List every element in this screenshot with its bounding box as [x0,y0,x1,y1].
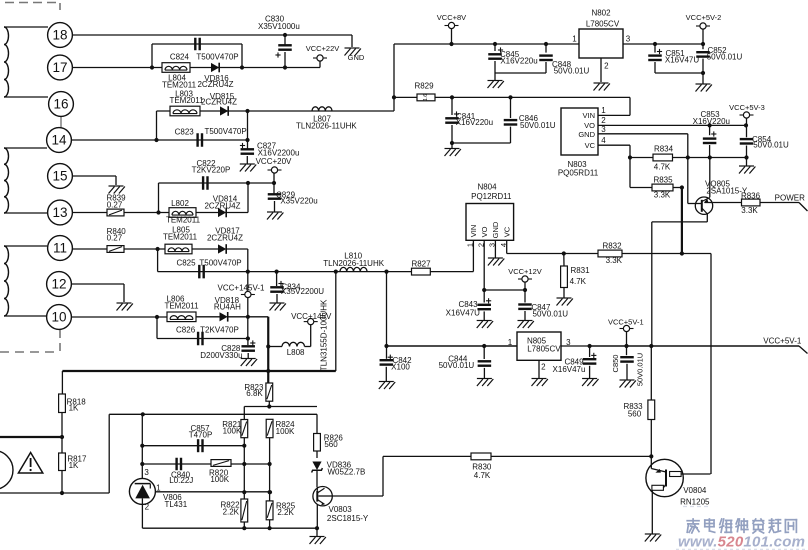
svg-text:4.7K: 4.7K [654,162,671,171]
svg-text:TEM2011: TEM2011 [166,216,201,225]
svg-text:14: 14 [51,133,67,148]
svg-text:VCC+12V: VCC+12V [508,267,542,276]
svg-text:1: 1 [601,106,606,115]
svg-text:4: 4 [601,136,606,145]
svg-text:GND: GND [348,53,365,62]
svg-text:1: 1 [572,34,577,43]
svg-text:560: 560 [324,440,338,449]
svg-text:3.3K: 3.3K [654,191,671,200]
svg-text:VIN: VIN [469,225,478,238]
svg-text:50V0.01U: 50V0.01U [533,310,569,319]
svg-text:L0.22J: L0.22J [169,476,193,485]
svg-text:R827: R827 [411,259,431,268]
svg-text:10: 10 [51,310,66,325]
svg-text:2: 2 [145,502,150,511]
svg-text:3: 3 [144,468,149,477]
svg-text:R836: R836 [741,192,761,201]
svg-text:50V0.01U: 50V0.01U [520,121,556,130]
svg-text:X16V47U: X16V47U [665,55,699,64]
svg-text:50V0.01U: 50V0.01U [636,353,645,386]
svg-text:100K: 100K [223,427,242,436]
svg-text:POWER: POWER [775,194,805,203]
svg-text:VCC+5V-1: VCC+5V-1 [608,318,644,327]
svg-text:2CZRU4Z: 2CZRU4Z [201,98,237,107]
svg-text:C824: C824 [170,53,190,62]
svg-text:X16V220u: X16V220u [456,118,493,127]
svg-text:GND: GND [491,221,500,238]
svg-text:VCC+8V: VCC+8V [437,13,466,22]
svg-text:T2KV470P: T2KV470P [200,326,239,335]
svg-text:VIN: VIN [582,111,595,120]
svg-text:TEM2011: TEM2011 [169,96,204,105]
svg-text:T470P: T470P [189,431,213,440]
svg-text:11: 11 [53,241,67,256]
svg-text:C825: C825 [176,259,196,268]
svg-text:18: 18 [52,28,67,43]
svg-text:X16V47u: X16V47u [553,365,586,374]
svg-text:4.7K: 4.7K [570,277,587,286]
svg-text:T2KV220P: T2KV220P [192,166,231,175]
svg-text:VCC+20V: VCC+20V [256,157,292,166]
svg-text:VC: VC [502,226,511,237]
svg-text:X16V47U: X16V47U [446,309,480,318]
svg-text:D200V330u: D200V330u [200,351,242,360]
svg-text:PQ12RD11: PQ12RD11 [471,192,512,201]
svg-text:N802: N802 [591,9,611,18]
svg-text:VO: VO [584,121,595,130]
svg-text:100K: 100K [210,475,229,484]
svg-text:50V0.01U: 50V0.01U [753,140,789,149]
svg-text:T500V470P: T500V470P [196,53,238,62]
svg-text:50V0.01U: 50V0.01U [554,67,590,76]
svg-text:RN1205: RN1205 [680,497,710,506]
svg-text:3: 3 [626,34,631,43]
svg-text:VCC+5V-2: VCC+5V-2 [686,13,722,22]
svg-text:X16V220u: X16V220u [500,57,537,66]
svg-text:C823: C823 [175,127,195,136]
svg-text:R829: R829 [414,82,434,91]
svg-text:560: 560 [628,410,642,419]
svg-text:X16V2200u: X16V2200u [258,148,300,157]
svg-text:VCC+5V-3: VCC+5V-3 [729,103,765,112]
svg-text:L802: L802 [171,199,189,208]
svg-text:13: 13 [52,205,67,220]
svg-text:C826: C826 [176,326,196,335]
svg-text:TLN2026-11UHK: TLN2026-11UHK [296,122,357,131]
svg-text:RU4AH: RU4AH [214,303,241,312]
svg-text:1K: 1K [69,461,79,470]
svg-text:L7805CV: L7805CV [527,344,561,353]
svg-text:TEM2011: TEM2011 [162,81,197,90]
svg-text:50V0.01U: 50V0.01U [439,361,475,370]
svg-text:0.27: 0.27 [107,201,123,210]
svg-text:17: 17 [52,60,67,75]
svg-text:2.2K: 2.2K [277,508,294,517]
svg-text:X35V1000u: X35V1000u [258,22,300,31]
svg-text:1K: 1K [69,404,79,413]
svg-text:1.6: 1.6 [423,94,429,101]
svg-text:TLN3155D-100UHK: TLN3155D-100UHK [320,299,329,371]
svg-text:6.8K: 6.8K [246,389,263,398]
svg-text:1: 1 [156,483,161,492]
svg-text:2SC1815-Y: 2SC1815-Y [327,514,369,523]
svg-text:16: 16 [53,97,68,112]
svg-text:VC: VC [585,141,596,150]
svg-text:C850: C850 [611,355,620,373]
svg-text:2CZRU4Z: 2CZRU4Z [197,80,233,89]
svg-text:15: 15 [52,169,67,184]
svg-text:X35V2200U: X35V2200U [281,287,324,296]
svg-text:R831: R831 [570,266,590,275]
svg-text:TEM2011: TEM2011 [164,302,199,311]
svg-text:1: 1 [508,338,513,347]
svg-text:V0803: V0803 [329,505,353,514]
svg-text:GND: GND [578,130,595,139]
svg-text:3.3K: 3.3K [606,256,623,265]
svg-text:2: 2 [541,363,546,372]
svg-text:PQ05RD11: PQ05RD11 [558,169,599,178]
svg-text:R835: R835 [653,176,673,185]
svg-text:4.7K: 4.7K [474,471,491,480]
svg-text:VCC+5V-1: VCC+5V-1 [763,337,802,346]
svg-text:www.520101.com: www.520101.com [678,534,805,550]
svg-text:3.3K: 3.3K [741,206,758,215]
svg-text:2: 2 [601,116,606,125]
svg-text:X16V220u: X16V220u [693,117,730,126]
svg-text:2CZRU4Z: 2CZRU4Z [207,234,243,243]
svg-text:X35V220u: X35V220u [280,196,317,205]
svg-text:VCC+22V: VCC+22V [306,44,340,53]
svg-text:W05Z2.7B: W05Z2.7B [328,468,366,477]
svg-text:2: 2 [604,62,609,71]
svg-text:V0804: V0804 [683,486,707,495]
svg-text:C843: C843 [458,300,478,309]
svg-text:TLN2026-11UHK: TLN2026-11UHK [323,259,384,268]
svg-text:T500V470P: T500V470P [199,259,241,268]
svg-text:50V0.01U: 50V0.01U [707,52,743,61]
svg-text:TEM2011: TEM2011 [163,233,198,242]
svg-text:TL431: TL431 [164,500,187,509]
svg-text:2CZRU4Z: 2CZRU4Z [204,202,240,211]
svg-text:3: 3 [601,125,606,134]
svg-text:100K: 100K [276,427,295,436]
svg-text:T500V470P: T500V470P [204,127,246,136]
svg-text:R832: R832 [602,242,622,251]
svg-text:L808: L808 [287,348,305,357]
svg-text:2.2K: 2.2K [223,508,240,517]
svg-text:12: 12 [51,277,66,292]
svg-text:VCC+145V-1: VCC+145V-1 [218,284,265,293]
svg-text:R834: R834 [654,144,674,153]
svg-text:VO: VO [480,226,489,237]
svg-text:L7805CV: L7805CV [586,20,620,29]
svg-text:X100: X100 [391,362,410,371]
svg-text:0.27: 0.27 [107,234,123,243]
svg-text:N804: N804 [477,183,497,192]
